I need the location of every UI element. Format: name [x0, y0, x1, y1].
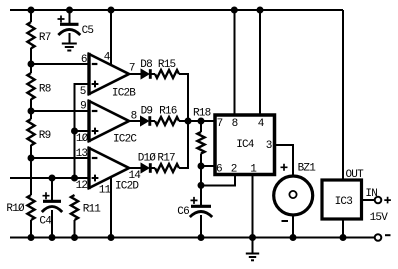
junction bus/pin13: [28, 155, 35, 162]
junction bus/pin9: [28, 108, 35, 115]
capacitor C5: [58, 16, 94, 38]
wire C4 top lead: [51, 178, 53, 200]
wire D9 to R16: [149, 120, 155, 122]
diode D9: [141, 106, 153, 126]
wire R8 to node: [30, 99, 32, 111]
junction C5 on rail: [66, 7, 73, 14]
wire R18 top lead: [200, 121, 202, 132]
wire D8 to R15: [150, 73, 155, 75]
junction bus/pin6: [28, 61, 35, 68]
svg-text:C5: C5: [82, 25, 94, 37]
wire pin 2: [201, 176, 235, 185]
resistor R16: [155, 106, 179, 125]
svg-text:IC3: IC3: [335, 196, 353, 208]
terminal - input: [375, 234, 391, 241]
wire pin 6 input: [31, 63, 88, 65]
svg-text:14: 14: [129, 170, 142, 182]
svg-text:1Ø: 1Ø: [76, 133, 89, 145]
wire D10 to R17: [150, 167, 155, 169]
IC4 box: [215, 115, 275, 175]
svg-text:R18: R18: [193, 108, 211, 120]
wire R15 to node: [179, 74, 188, 121]
wire R10 to rail: [30, 220, 32, 238]
wire bus lead: [30, 64, 32, 73]
wire IC2B output: [129, 73, 142, 75]
junction R10/rail: [28, 234, 35, 241]
wire R18 bottom lead: [200, 154, 202, 167]
wire BZ1 to rail: [292, 216, 294, 238]
wire pin 12 input: [10, 177, 88, 179]
svg-text:3: 3: [266, 140, 272, 152]
junction pin11/rail: [108, 234, 115, 241]
svg-text:C4: C4: [39, 216, 52, 228]
svg-text:IC2C: IC2C: [113, 134, 137, 146]
svg-text:13: 13: [76, 148, 88, 160]
terminal + input: [375, 197, 391, 204]
wire bus down through crossing: [30, 158, 32, 195]
wire C5 to ground: [69, 33, 71, 44]
diode D10: [138, 152, 157, 173]
svg-text:R1Ø: R1Ø: [6, 203, 25, 215]
wire pin 1 to rail: [252, 175, 254, 238]
capacitor C4: [39, 192, 62, 227]
wire R9 to node: [30, 145, 32, 158]
svg-text:R16: R16: [159, 106, 177, 118]
wire R16 to node: [179, 120, 188, 122]
junction R18 / pin6: [198, 163, 205, 170]
wire pin 13 input: [31, 157, 88, 159]
capacitor C6: [177, 197, 212, 218]
svg-text:11: 11: [99, 185, 112, 197]
buzzer BZ1: [274, 163, 317, 221]
junction C4 top: [49, 175, 56, 182]
svg-text:C6: C6: [177, 206, 189, 218]
wire top supply rail: [10, 9, 343, 11]
junction summing node: [185, 118, 192, 125]
resistor R15: [155, 59, 179, 78]
resistor R10: [27, 195, 34, 220]
junction pin5/pin10: [71, 128, 78, 135]
junction pin8 on rail: [231, 7, 238, 14]
resistor R8: [27, 73, 34, 99]
wire IC3 IN to terminal: [362, 199, 375, 201]
wire node down to C6: [200, 166, 202, 205]
junction C6/rail: [198, 234, 205, 241]
op-amp IC2D: [89, 147, 139, 193]
wire pin 3 to BZ1: [275, 145, 293, 176]
svg-text:R8: R8: [39, 83, 51, 95]
svg-text:7: 7: [129, 63, 135, 75]
svg-text:5: 5: [80, 86, 86, 98]
svg-text:2: 2: [231, 163, 237, 175]
wire bus lead: [30, 111, 32, 119]
svg-text:R9: R9: [39, 130, 51, 142]
wire C4 bottom lead: [51, 210, 53, 238]
svg-text:R7: R7: [39, 32, 51, 44]
IC3 regulator box: [322, 180, 362, 219]
wire R17 up to node: [179, 121, 188, 168]
ground (main): [246, 254, 259, 261]
svg-text:D9: D9: [141, 106, 153, 118]
junction C4/rail: [49, 234, 56, 241]
svg-text:IC4: IC4: [236, 139, 255, 151]
wire node to IC4 pin7: [188, 120, 214, 122]
junction R11/rail: [71, 234, 78, 241]
resistor R18: [193, 108, 211, 154]
resistor R9: [27, 119, 34, 145]
resistor R11: [71, 195, 101, 220]
junction C6 / pin2: [198, 182, 205, 189]
svg-text:IC2B: IC2B: [112, 87, 136, 99]
junction R18 top: [198, 118, 205, 125]
wire top rail down to IC3 OUT: [342, 10, 344, 180]
wire pin 6: [201, 165, 214, 167]
wire IC2D output: [129, 167, 141, 169]
svg-text:D1Ø: D1Ø: [138, 152, 157, 164]
wire R7 to node: [30, 48, 32, 64]
svg-text:6: 6: [81, 54, 87, 66]
wire pin 10 input: [75, 130, 88, 132]
junction IC3/rail: [340, 234, 347, 241]
junction pin4 wire on rail: [108, 7, 115, 14]
ground (C5): [62, 44, 77, 51]
junction bus on rail: [28, 7, 35, 14]
wire C6 to rail: [200, 215, 202, 238]
wire left bus top lead: [30, 10, 32, 22]
op-amp IC2B: [89, 53, 136, 100]
svg-text:7: 7: [217, 118, 223, 130]
wire pin 4 supply: [259, 10, 261, 114]
wire pin10 node down: [74, 131, 76, 178]
wire IC2C output: [129, 120, 140, 122]
svg-text:R17: R17: [157, 152, 175, 164]
resistor R7: [27, 22, 34, 48]
diode D8: [140, 59, 152, 79]
junction R11 top: [71, 175, 78, 182]
wire pin 4 supply to IC2B: [110, 10, 112, 65]
wire R11 bottom lead: [74, 220, 76, 238]
resistor R17: [155, 152, 179, 172]
wire C5 top lead: [69, 10, 71, 24]
svg-text:15V: 15V: [370, 212, 389, 224]
junction pin4 on rail: [257, 7, 264, 14]
junction gnd/rail: [249, 234, 256, 241]
svg-text:8: 8: [232, 118, 238, 130]
wire pin 5 input: [75, 84, 88, 131]
svg-text:6: 6: [216, 163, 222, 175]
op-amp IC2C: [89, 100, 137, 146]
svg-text:R11: R11: [83, 204, 102, 216]
svg-text:9: 9: [80, 101, 86, 113]
wire pin 9 input: [31, 110, 88, 112]
wire pin 11 to ground rail: [110, 177, 112, 238]
wire gnd stub: [252, 238, 254, 254]
svg-text:R15: R15: [158, 59, 176, 71]
wire IC3 bottom to rail: [342, 219, 344, 238]
junction BZ1/rail: [290, 234, 297, 241]
svg-text:OUT: OUT: [346, 169, 365, 181]
wire bottom ground rail: [10, 237, 375, 239]
wire pin 8 supply: [233, 10, 235, 114]
svg-text:12: 12: [76, 180, 88, 192]
svg-text:D8: D8: [140, 59, 152, 71]
svg-text:BZ1: BZ1: [298, 163, 317, 175]
